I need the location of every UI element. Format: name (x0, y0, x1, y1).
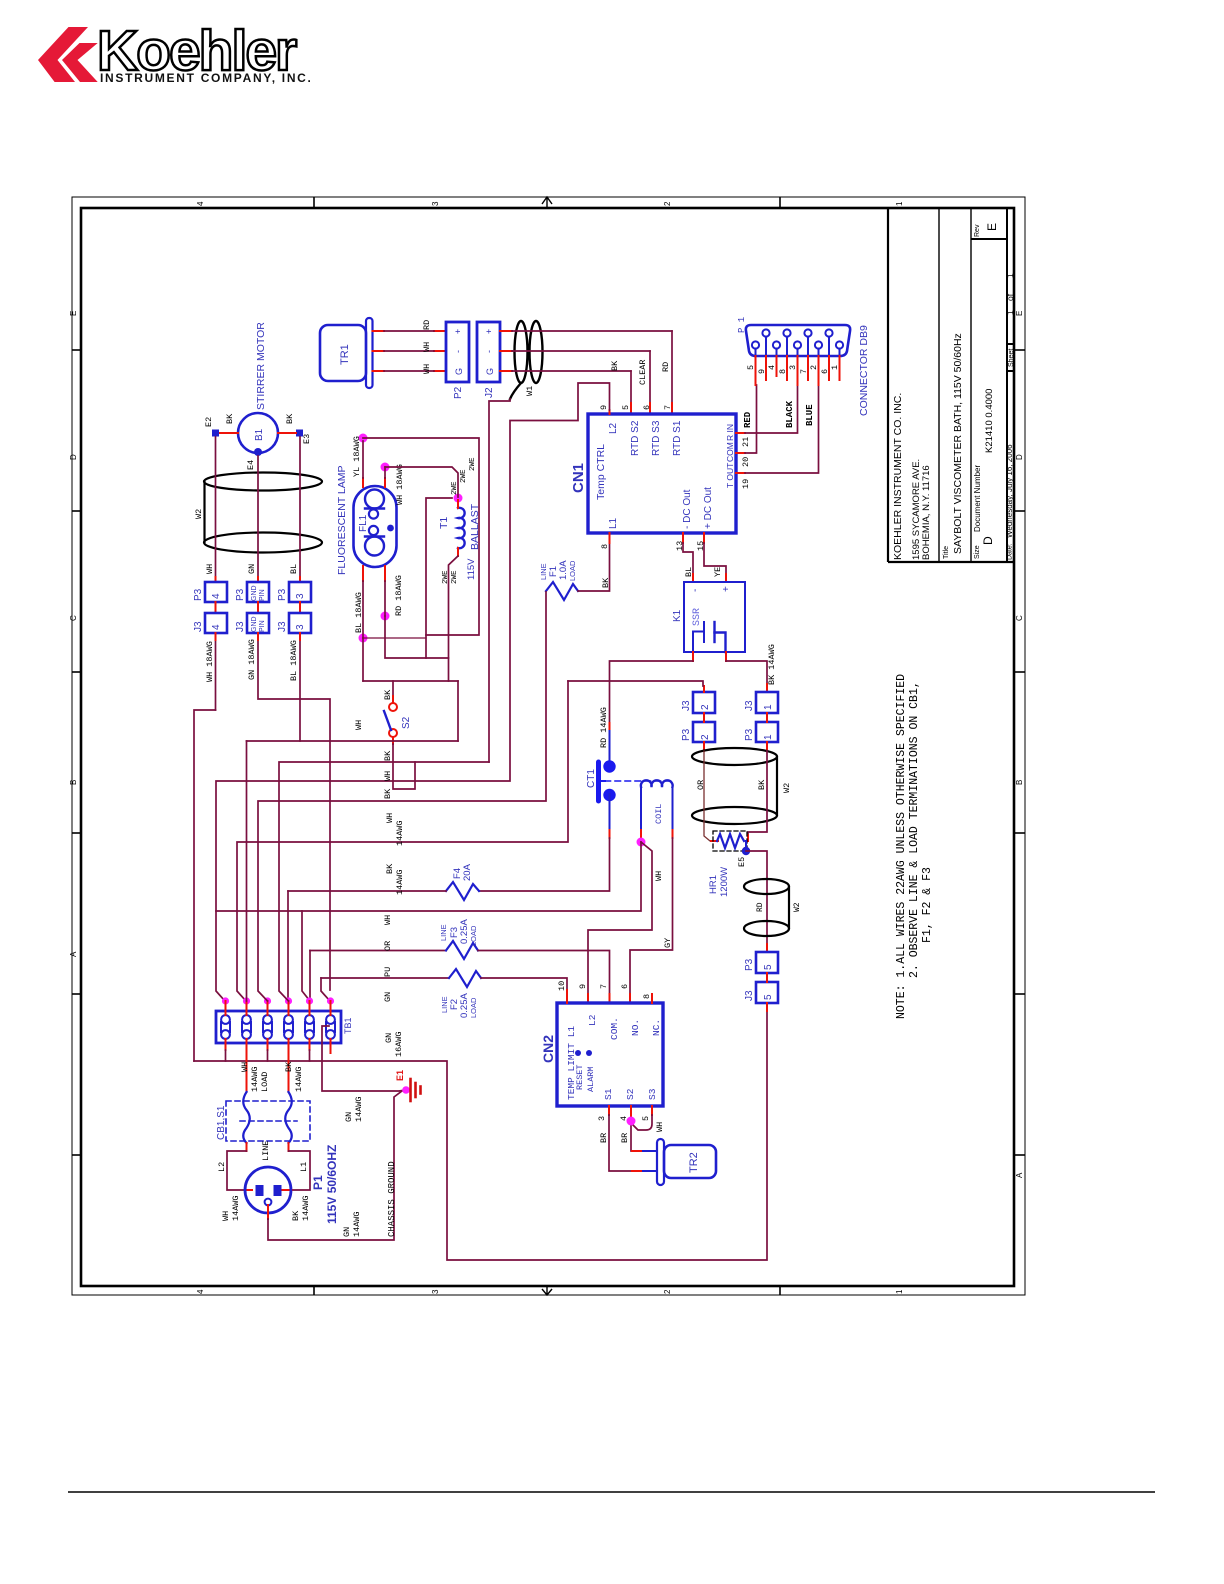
svg-text:WH: WH (383, 915, 393, 925)
connector P3 pin4 (193, 582, 227, 602)
shield W2 (motor) (204, 473, 322, 553)
svg-text:14AWG: 14AWG (395, 869, 405, 895)
svg-text:+: + (721, 586, 732, 592)
wire FL1 pin stubs (363, 478, 385, 581)
footer line (68, 1491, 1155, 1493)
svg-text:21: 21 (741, 437, 751, 447)
svg-text:10: 10 (557, 981, 567, 991)
svg-text:L1: L1 (608, 517, 619, 529)
svg-text:8: 8 (778, 369, 788, 374)
svg-text:L2: L2 (217, 1162, 227, 1172)
svg-text:-: - (690, 589, 701, 592)
svg-text:LOAD: LOAD (469, 997, 478, 1018)
connector P3 pin5 (744, 952, 778, 973)
svg-text:BK: BK (383, 788, 393, 799)
shield W2 (RD) (744, 879, 789, 936)
chassis ground E1 (395, 1070, 421, 1101)
svg-text:RD: RD (756, 902, 765, 912)
svg-text:7: 7 (663, 405, 673, 410)
svg-text:WH: WH (221, 1211, 231, 1221)
zone ticks top (313, 197, 315, 208)
svg-text:2: 2 (663, 1289, 672, 1294)
svg-text:W1: W1 (525, 386, 535, 396)
svg-text:1: 1 (895, 201, 904, 206)
connector P3 pin3 (277, 582, 311, 602)
svg-text:5: 5 (763, 964, 774, 970)
svg-text:6: 6 (820, 369, 830, 374)
connector P1 DB9 (737, 317, 870, 416)
svg-text:BL 18AWG: BL 18AWG (289, 640, 299, 681)
svg-text:7: 7 (799, 369, 809, 374)
svg-text:BK: BK (610, 360, 620, 371)
wire J3/P3 heater stubs (704, 713, 767, 751)
zone ticks left (72, 350, 81, 1155)
note text (895, 674, 934, 1019)
svg-text:115V 50/6OHZ: 115V 50/6OHZ (325, 1145, 339, 1224)
svg-text:5: 5 (746, 365, 756, 370)
svg-text:1: 1 (830, 365, 840, 370)
svg-text:J3: J3 (744, 990, 755, 1001)
svg-text:9: 9 (578, 984, 588, 989)
connector P3 gnd pin (235, 582, 269, 602)
svg-text:BL: BL (684, 567, 694, 577)
wire plug ground to bus (268, 1091, 402, 1240)
coil (relay coil) (641, 780, 673, 838)
svg-text:SAYBOLT VISCOMETER BATH, 115V: SAYBOLT VISCOMETER BATH, 115V 50/60Hz (952, 333, 964, 554)
wire E5 to P3-5 (746, 851, 767, 952)
svg-text:P3: P3 (193, 588, 204, 601)
svg-text:CN1: CN1 (570, 463, 587, 493)
svg-text:Sheet: Sheet (1008, 349, 1015, 367)
svg-text:E5: E5 (737, 857, 747, 867)
plug P1 (245, 1145, 339, 1224)
wire W1 drain down (489, 399, 510, 762)
wire bus911 drop to dot5 (302, 911, 310, 1001)
svg-text:BK: BK (291, 1210, 301, 1221)
svg-text:W2: W2 (793, 902, 802, 912)
svg-text:19: 19 (741, 479, 751, 489)
svg-text:L2: L2 (587, 1014, 598, 1026)
svg-text:8: 8 (642, 994, 652, 999)
svg-text:5: 5 (621, 405, 631, 410)
svg-text:P2: P2 (453, 386, 464, 399)
svg-text:Title: Title (943, 546, 950, 559)
svg-text:L2: L2 (608, 422, 619, 434)
svg-text:Size: Size (974, 545, 981, 559)
svg-text:3: 3 (431, 1289, 440, 1294)
logo wordmark (97, 19, 313, 85)
fuse F1 (539, 533, 611, 600)
svg-text:J3: J3 (681, 700, 692, 711)
svg-text:WH: WH (205, 564, 215, 574)
node coil junction (637, 838, 646, 847)
transformer TR1 (320, 318, 373, 388)
terminal block TB1 (216, 1011, 353, 1043)
svg-text:WH: WH (383, 771, 393, 781)
wire YL chain to ballast top (363, 438, 479, 635)
svg-text:3: 3 (597, 1116, 607, 1121)
svg-text:GN: GN (247, 564, 257, 574)
svg-text:NC.: NC. (651, 1019, 662, 1036)
svg-text:RTD S2: RTD S2 (630, 420, 641, 456)
svg-text:GND: GND (251, 616, 258, 632)
wire J2+ to CN1 pin7 (512, 331, 672, 414)
wire CN1 15 to K1 plus (704, 533, 726, 582)
wire PU line into dot6 (321, 978, 330, 1001)
svg-text:PIN: PIN (259, 620, 266, 632)
wire coil junction to TB1 dot3 bus911 (216, 842, 641, 911)
wire S2 top stub (392, 681, 394, 696)
connector J3 pin5 (744, 982, 778, 1003)
wire E3 to P3-3 (299, 437, 301, 577)
svg-text:20: 20 (741, 457, 751, 467)
svg-text:RTD S3: RTD S3 (651, 420, 662, 456)
connector J3 gnd pin (235, 613, 269, 633)
svg-text:1: 1 (1005, 310, 1015, 315)
svg-text:J3: J3 (193, 621, 204, 632)
svg-text:C: C (69, 615, 78, 621)
svg-text:3: 3 (788, 365, 798, 370)
fuse F4 (288, 863, 479, 900)
relay K1 SSR (672, 582, 745, 652)
svg-text:J3: J3 (744, 700, 755, 711)
svg-text:BOHEMIA, N.Y. 11716: BOHEMIA, N.Y. 11716 (921, 465, 932, 560)
svg-text:6: 6 (642, 405, 652, 410)
svg-text:B: B (1015, 780, 1024, 785)
wire B1 leads red (220, 432, 296, 434)
wire CN1 TOUT to P1 pin2 BLUE (736, 385, 819, 473)
temp controller CN1 (570, 414, 736, 533)
wire CN1 L2 pin9 chain to TB1 dot1 (216, 383, 610, 1001)
svg-text:GN: GN (383, 992, 393, 1002)
svg-text:WH: WH (655, 1122, 665, 1132)
svg-text:2: 2 (700, 704, 711, 710)
svg-text:J3: J3 (277, 621, 288, 632)
svg-text:14AWG: 14AWG (250, 1066, 260, 1092)
TB1 terminal stubs red (226, 1001, 331, 1092)
svg-text:B: B (69, 780, 78, 785)
svg-text:14AWG: 14AWG (395, 820, 405, 846)
svg-text:P3: P3 (744, 958, 755, 971)
svg-text:E1: E1 (395, 1070, 405, 1081)
svg-text:RESET: RESET (575, 1064, 585, 1090)
svg-text:Date:: Date: (1007, 543, 1014, 560)
bundle wire labels (354, 720, 405, 1002)
svg-text:P 1: P 1 (737, 317, 747, 333)
svg-text:CONNECTOR DB9: CONNECTOR DB9 (858, 325, 870, 416)
svg-text:WH: WH (240, 1062, 250, 1072)
svg-text:BK: BK (285, 413, 295, 424)
svg-text:1: 1 (1005, 273, 1015, 278)
svg-text:KOEHLER INSTRUMENT CO. INC.: KOEHLER INSTRUMENT CO. INC. (892, 393, 904, 560)
svg-text:J3: J3 (235, 621, 246, 632)
svg-text:COIL: COIL (654, 804, 664, 824)
svg-text:3: 3 (295, 624, 306, 630)
svg-text:7: 7 (599, 984, 609, 989)
svg-text:+: + (484, 329, 494, 334)
fluorescent lamp FL1 (354, 486, 397, 567)
svg-text:WH 18AWG: WH 18AWG (395, 464, 405, 505)
svg-text:+ DC Out: + DC Out (703, 487, 714, 529)
svg-text:BL 18AWG: BL 18AWG (354, 592, 364, 633)
svg-text:HR1: HR1 (708, 875, 719, 894)
wire P1 pin stubs red (756, 356, 840, 385)
svg-text:WH 18AWG: WH 18AWG (205, 641, 215, 682)
svg-text:E3: E3 (302, 434, 312, 444)
svg-text:B1: B1 (254, 428, 265, 441)
svg-text:G: G (454, 368, 464, 375)
ballast T1 coil (458, 508, 465, 548)
svg-text:BK 14AWG: BK 14AWG (767, 644, 777, 685)
svg-text:S2: S2 (401, 716, 412, 729)
svg-text:BR: BR (620, 1133, 630, 1143)
svg-text:K1: K1 (672, 609, 683, 622)
wire J3-3 down (299, 640, 301, 741)
svg-text:P3: P3 (681, 728, 692, 741)
svg-text:Wednesday, July 16, 2006: Wednesday, July 16, 2006 (1005, 444, 1014, 538)
svg-text:BLUE: BLUE (805, 404, 815, 426)
svg-text:GN 18AWG: GN 18AWG (247, 639, 257, 680)
connector J3 pin4 (193, 613, 227, 633)
svg-text:BK: BK (757, 779, 767, 790)
svg-text:BK: BK (383, 750, 393, 761)
svg-text:T1: T1 (438, 517, 450, 529)
svg-text:BL: BL (289, 564, 299, 574)
svg-text:WH: WH (422, 364, 432, 374)
svg-text:2WE: 2WE (469, 457, 477, 471)
svg-text:BK: BK (225, 413, 235, 424)
connector J3 pin2 (681, 692, 715, 713)
svg-text:14AWG: 14AWG (301, 1195, 311, 1221)
node FL1 top junction (381, 463, 390, 472)
wire P3-J3 stubs red (216, 602, 301, 613)
wire FL1 top to WH line (385, 467, 458, 497)
svg-text:NO.: NO. (630, 1019, 641, 1036)
svg-text:4: 4 (211, 624, 222, 630)
wire OR line into dot5 (309, 951, 311, 1002)
svg-text:D: D (981, 536, 995, 545)
motor B1 (238, 322, 278, 453)
wire J2- to CN1 pin6 (512, 351, 650, 414)
svg-text:2WE: 2WE (451, 570, 459, 584)
svg-text:RD: RD (422, 320, 432, 330)
wire J2 G to CN1 pin5 (512, 360, 631, 414)
svg-text:BK: BK (383, 689, 393, 700)
wire lamp bus 681 (363, 680, 458, 682)
connector P3 pin1 (744, 722, 778, 742)
svg-text:COM.: COM. (609, 1017, 620, 1040)
svg-text:COM: COM (725, 442, 735, 462)
svg-text:P3: P3 (277, 588, 288, 601)
svg-text:E: E (1015, 311, 1024, 316)
svg-text:E: E (985, 223, 999, 231)
svg-text:- DC Out: - DC Out (682, 489, 693, 529)
svg-text:3: 3 (431, 201, 440, 206)
svg-text:P3: P3 (744, 728, 755, 741)
wire E4 to P3-GND (257, 456, 259, 577)
svg-text:2: 2 (663, 201, 672, 206)
wire CN1 13 to K1 minus (683, 533, 694, 582)
wire S2 bottom to bus762 (393, 744, 415, 789)
svg-text:K21410 0.4000: K21410 0.4000 (984, 389, 995, 453)
wire bridge to FL1 RD dot (385, 616, 449, 658)
svg-text:J2: J2 (484, 387, 495, 398)
svg-text:3: 3 (295, 593, 306, 599)
svg-text:1: 1 (763, 734, 774, 740)
svg-text:S3: S3 (647, 1088, 658, 1100)
wire J3-GND green chain (258, 640, 330, 990)
node T1 top junction (454, 494, 463, 503)
svg-text:SSR: SSR (692, 608, 703, 626)
svg-text:G: G (485, 368, 495, 375)
svg-text:Rev: Rev (974, 224, 981, 237)
svg-text:LINE: LINE (439, 924, 448, 941)
temp limit CN2 (540, 1003, 663, 1106)
svg-text:BK: BK (601, 577, 611, 588)
svg-text:P3: P3 (235, 588, 246, 601)
shield W2 (heater) (692, 748, 777, 824)
svg-text:TR1: TR1 (339, 344, 351, 365)
CN2 top stubs (566, 990, 568, 1003)
wire J3-4 down-under route (194, 640, 216, 1061)
svg-text:BK: BK (284, 1061, 294, 1072)
wire T1 bottom down (449, 556, 459, 681)
svg-text:6: 6 (620, 984, 630, 989)
svg-text:GN: GN (384, 1033, 394, 1043)
svg-text:R IN: R IN (725, 424, 735, 441)
svg-text:BLACK: BLACK (785, 400, 795, 428)
wire K1 right bottom to J3-1 (726, 644, 777, 692)
svg-text:2WE: 2WE (451, 481, 459, 495)
svg-text:TR2: TR2 (688, 1152, 700, 1173)
node FL1 bottom RD junction (381, 612, 390, 621)
svg-text:GND: GND (251, 585, 258, 601)
svg-text:RED: RED (743, 411, 753, 428)
circuit breaker CB1,S1 (216, 1092, 310, 1143)
svg-text:LOAD: LOAD (568, 560, 577, 581)
svg-text:4: 4 (767, 365, 777, 370)
pin number labels CN1 (599, 405, 751, 551)
svg-text:L1: L1 (299, 1162, 309, 1172)
wire CN2 pin8 stub (651, 994, 653, 1003)
svg-text:P1: P1 (311, 1175, 325, 1190)
svg-text:4: 4 (196, 1289, 205, 1294)
svg-text:BK: BK (385, 863, 395, 874)
node CN2 S2 junction (627, 1117, 636, 1126)
svg-text:WH: WH (422, 342, 432, 352)
svg-text:STIRRER MOTOR: STIRRER MOTOR (255, 322, 267, 410)
wire TR1 to P2 leads (373, 331, 447, 371)
twisted pair W1 (510, 321, 543, 399)
svg-text:4: 4 (196, 201, 205, 206)
connector J3 pin3 (277, 613, 311, 633)
svg-text:5: 5 (641, 1116, 651, 1121)
wire bus762 S2/drain to dot4 (279, 762, 489, 1001)
svg-text:WH: WH (654, 871, 664, 881)
svg-text:Temp CTRL: Temp CTRL (595, 444, 607, 500)
svg-text:ALARM: ALARM (586, 1066, 596, 1092)
connector J2 (477, 322, 500, 398)
svg-text:NOTE: 1.ALL WIRES 22AWG UNLESS: NOTE: 1.ALL WIRES 22AWG UNLESS OTHERWISE… (895, 674, 908, 1019)
svg-text:-: - (453, 350, 463, 353)
svg-text:9: 9 (757, 369, 767, 374)
wire CN2 S2 to TR2 (620, 1106, 643, 1151)
svg-text:2: 2 (700, 734, 711, 740)
svg-text:-: - (484, 350, 494, 353)
fuse F2 (321, 969, 567, 1018)
wire F4 feed to TB1 dot4 (287, 891, 289, 1001)
wire F1 line side to TB1 dot3 (258, 592, 546, 1001)
svg-text:YL 18AWG: YL 18AWG (352, 436, 362, 477)
wire CN1 COM to P1 pin5 RED (736, 385, 757, 453)
wire CB1 to plug L1 (282, 1143, 310, 1190)
svg-text:S2: S2 (625, 1088, 636, 1100)
svg-text:+: + (453, 329, 463, 334)
wire CN2 S1 to TR2 (599, 1106, 643, 1171)
wire J3-2 up chain to TB1 dot2 (237, 681, 704, 1001)
svg-text:CT1: CT1 (586, 769, 597, 788)
wire TB1 bottoms to bus1061 (226, 1050, 310, 1061)
svg-text:5: 5 (763, 994, 774, 1000)
svg-text:FLUORESCENT LAMP: FLUORESCENT LAMP (336, 466, 348, 576)
svg-text:8: 8 (600, 544, 610, 549)
border outer thin (72, 197, 1025, 1295)
svg-text:LOAD: LOAD (469, 925, 478, 946)
svg-text:1200W: 1200W (719, 867, 730, 897)
svg-text:CN2: CN2 (540, 1035, 556, 1063)
svg-text:TB1: TB1 (343, 1017, 353, 1034)
svg-text:S1: S1 (603, 1088, 614, 1100)
wire BK P3-1 to HR1 right (748, 751, 767, 838)
svg-text:GN: GN (344, 1112, 354, 1122)
node E2 (204, 417, 219, 437)
svg-text:LINE: LINE (261, 1141, 271, 1161)
wire OR P3-2 to HR1 (704, 751, 717, 841)
node E5 (737, 841, 750, 867)
svg-text:A: A (1015, 1172, 1024, 1178)
svg-text:LOAD: LOAD (260, 1072, 270, 1092)
node E4 (246, 448, 262, 470)
svg-text:2. OBSERVE LINE & LOAD TERMINA: 2. OBSERVE LINE & LOAD TERMINATIONS ON C… (908, 681, 921, 978)
fuse F3 (310, 919, 610, 1003)
svg-text:W2: W2 (782, 783, 792, 793)
svg-text:E2: E2 (204, 417, 214, 427)
connector P3 pin2 (681, 722, 715, 742)
svg-text:115V: 115V (466, 558, 477, 580)
svg-text:WH: WH (354, 720, 364, 730)
switch S2 (383, 689, 412, 761)
svg-text:9: 9 (599, 405, 609, 410)
svg-text:16AWG: 16AWG (394, 1031, 404, 1057)
node YL junction (359, 434, 368, 443)
svg-text:YE: YE (713, 567, 723, 577)
svg-text:BALLAST: BALLAST (469, 503, 481, 550)
svg-text:CB1,S1: CB1,S1 (216, 1105, 227, 1140)
svg-text:of: of (1005, 293, 1015, 301)
svg-text:RD 18AWG: RD 18AWG (394, 575, 404, 616)
svg-text:A: A (69, 951, 78, 957)
connector P2 (446, 322, 469, 399)
wire J2 right stubs (500, 331, 512, 371)
svg-text:RD: RD (661, 362, 671, 372)
svg-text:4: 4 (211, 593, 222, 599)
svg-text:14AWG: 14AWG (354, 1096, 364, 1122)
connector J3 pin1 (744, 692, 778, 713)
svg-text:RD 14AWG: RD 14AWG (599, 707, 609, 748)
wire FL1 BL dot jumper (363, 637, 426, 639)
svg-text:OR: OR (383, 941, 393, 951)
wire CT1 bottom to F4 (479, 794, 610, 891)
